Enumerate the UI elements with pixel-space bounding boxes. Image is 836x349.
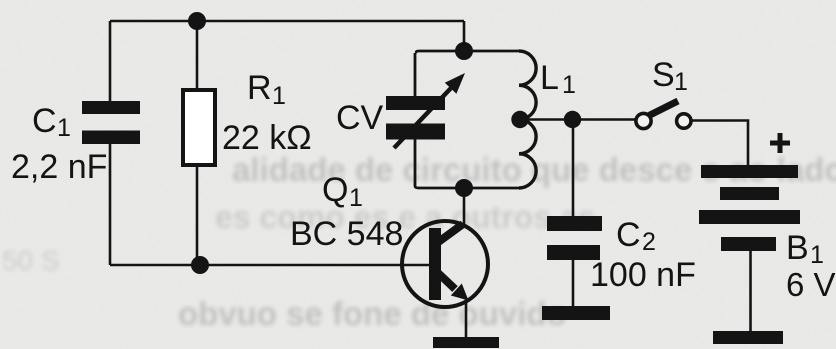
svg-text:1: 1: [349, 184, 363, 212]
svg-text:50 S: 50 S: [2, 245, 60, 276]
svg-text:S: S: [652, 56, 675, 94]
svg-text:1: 1: [674, 68, 688, 96]
variable capacitor CV: [386, 73, 465, 148]
wire Q1 collector lead: [463, 188, 466, 224]
transistor Q1: [402, 221, 488, 307]
svg-text:B: B: [786, 229, 809, 267]
label B1: [786, 229, 824, 269]
svg-text:1: 1: [562, 71, 576, 99]
node junction top rail / R1: [188, 12, 206, 30]
wire C1 bottom lead: [109, 144, 112, 265]
wire C2 top lead: [572, 120, 575, 216]
svg-text:BC 548: BC 548: [290, 215, 403, 253]
ghost bleed-through text line 1: [232, 151, 836, 188]
ghost bleed-through text line 3: [178, 295, 567, 332]
svg-text:R: R: [247, 69, 272, 107]
node L1 tap: [511, 111, 528, 128]
ghost fragment left edge: [2, 245, 60, 276]
ground B1: [713, 331, 783, 344]
label C1: [32, 102, 71, 142]
svg-text:L: L: [540, 59, 559, 97]
resistor R1: [183, 90, 215, 165]
wire C2 bottom lead: [572, 260, 575, 306]
wire drop from top rail to tank: [463, 21, 466, 51]
plus sign battery positive: [770, 133, 790, 153]
wire L1 tap to switch: [521, 118, 636, 121]
svg-text:100 nF: 100 nF: [590, 256, 696, 294]
label R1: [247, 69, 286, 110]
svg-text:C: C: [616, 216, 641, 254]
svg-text:22 kΩ: 22 kΩ: [222, 119, 312, 157]
wire tank top rail: [416, 51, 519, 53]
wire C1 top lead: [109, 21, 112, 101]
capacitor C1: [82, 101, 140, 144]
svg-text:CV: CV: [336, 99, 384, 137]
node junction bottom rail / R1: [191, 256, 209, 274]
svg-text:1: 1: [57, 114, 71, 142]
capacitor C2: [547, 216, 602, 260]
svg-text:es como es e a outros as: es como es e a outros as: [215, 199, 596, 235]
wire top rail: [110, 20, 464, 23]
svg-text:Q: Q: [322, 171, 348, 209]
inductor L1: [519, 51, 536, 188]
svg-text:2,2 nF: 2,2 nF: [11, 148, 107, 186]
wire battery bottom lead: [749, 251, 752, 331]
battery B1: [699, 165, 800, 251]
wire tank bottom rail: [415, 186, 519, 188]
label Q1: [322, 171, 363, 212]
wire tank left rail lower: [414, 139, 417, 186]
wire switch to battery: [691, 121, 748, 166]
ground C2: [542, 306, 610, 320]
svg-text:1: 1: [272, 82, 286, 110]
switch S1: [636, 101, 691, 129]
svg-text:1: 1: [810, 241, 824, 269]
svg-text:C: C: [32, 102, 57, 140]
svg-text:obvuo se fone de ouvido: obvuo se fone de ouvido: [178, 295, 567, 332]
wire bottom rail to Q1 base: [110, 264, 430, 267]
wire R1 top lead: [196, 21, 199, 90]
wire Q1 emitter lead: [465, 299, 468, 337]
node junction tank top: [455, 42, 473, 60]
label C2: [616, 216, 656, 256]
ground Q1 emitter: [433, 337, 499, 348]
wire tank left rail upper: [414, 53, 417, 96]
label L1: [540, 59, 576, 99]
ghost bleed-through text line 2: [215, 199, 596, 235]
svg-text:2: 2: [642, 228, 656, 256]
svg-text:6 V: 6 V: [786, 266, 836, 303]
node junction tap / C2: [564, 111, 581, 128]
node junction tank bottom / collector: [455, 179, 473, 197]
label S1: [652, 56, 688, 96]
wire R1 bottom lead: [196, 165, 199, 265]
